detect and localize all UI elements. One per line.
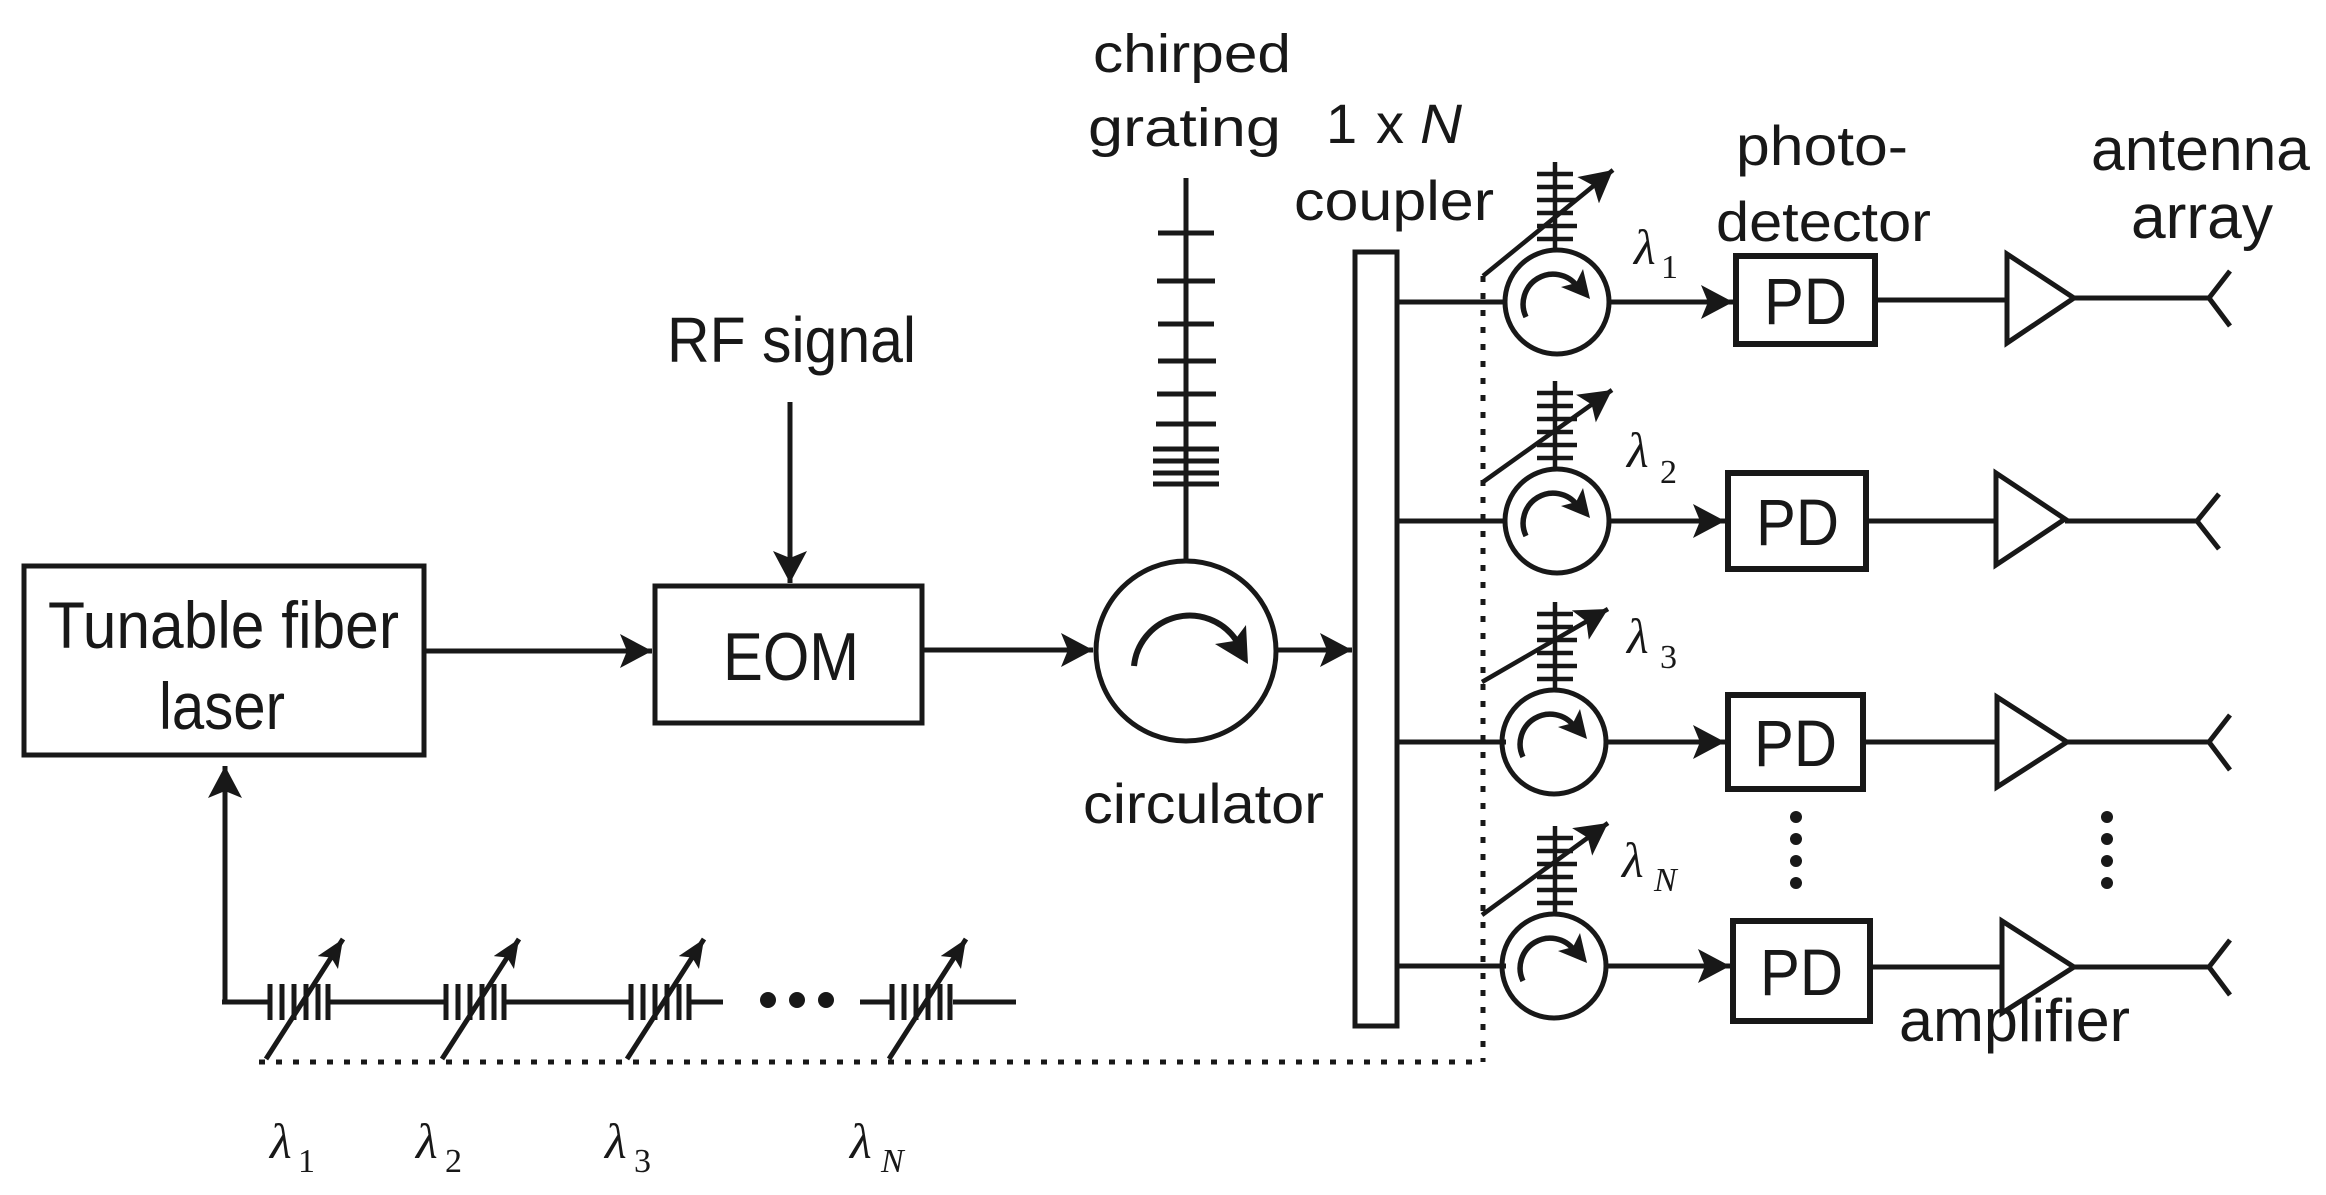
ellipsis dots: fiber chain	[760, 992, 834, 1008]
tuning arrow row2 (diagonal)	[1483, 390, 1612, 482]
tunable grating row4 (stem and ticks)	[1537, 826, 1577, 914]
wire: PD1 to amplifier1	[1875, 298, 2007, 303]
svg-text:1: 1	[1326, 92, 1357, 155]
svg-text:x: x	[1376, 92, 1404, 155]
svg-text:2: 2	[1660, 454, 1677, 491]
svg-text:3: 3	[634, 1143, 651, 1180]
photodetector PD3	[1728, 695, 1863, 789]
photodetector PD4	[1733, 921, 1870, 1021]
laser box U1: Tunable fiber laser	[24, 566, 424, 755]
antenna 1	[2209, 271, 2230, 326]
tunable grating row1 (stem and ticks)	[1537, 162, 1577, 250]
svg-text:grating: grating	[1088, 98, 1281, 158]
svg-text:circulator: circulator	[1083, 772, 1324, 835]
label: lambda 2 (bottom)	[414, 1113, 462, 1180]
photodetector PD1	[1736, 256, 1875, 344]
svg-text:detector: detector	[1716, 190, 1931, 253]
label: lambda 2 (row2)	[1625, 422, 1677, 491]
svg-text:λ: λ	[1620, 832, 1644, 888]
wire: amplifier3 to antenna3	[2067, 740, 2209, 745]
circulator row2	[1505, 469, 1609, 573]
label: chirped grating	[1088, 24, 1291, 158]
svg-text:array: array	[2131, 183, 2273, 252]
svg-text:PD: PD	[1760, 935, 1843, 1009]
antenna 3	[2209, 715, 2230, 770]
wire: fiber segment before G4	[860, 1000, 890, 1005]
wire: PD3 to amplifier3	[1863, 740, 1997, 745]
label: lambda N (bottom)	[848, 1113, 906, 1180]
svg-text:1: 1	[298, 1143, 315, 1180]
wire: coupler to circulator row3	[1397, 740, 1506, 745]
svg-text:EOM: EOM	[723, 619, 859, 695]
wire: amplifier1 to antenna1	[2074, 296, 2209, 301]
svg-text:PD: PD	[1764, 264, 1847, 338]
svg-text:λ: λ	[603, 1113, 627, 1169]
tuning arrow row4 (diagonal)	[1482, 823, 1608, 915]
svg-text:laser: laser	[159, 669, 285, 743]
circulator row1	[1505, 250, 1609, 354]
tunable grating row3 (stem and ticks)	[1537, 602, 1577, 690]
wire: circulator row2 to PD2	[1609, 519, 1725, 524]
label: 1 x N	[1326, 92, 1463, 155]
svg-text:λ: λ	[268, 1113, 292, 1169]
fiber grating G2	[446, 984, 504, 1020]
antenna 2	[2197, 494, 2219, 549]
tuning arrow row1 (diagonal)	[1483, 170, 1613, 276]
circulator row4	[1502, 914, 1606, 1018]
label: lambda 3 (bottom)	[603, 1113, 651, 1180]
tuning arrow row3 (diagonal)	[1482, 609, 1608, 682]
label: antenna array	[2091, 116, 2311, 252]
modulator EOM box	[655, 586, 922, 723]
svg-text:amplifier: amplifier	[1899, 987, 2130, 1054]
tuning arrow G2	[442, 939, 519, 1059]
wire: coupler to circulator row1	[1397, 300, 1506, 305]
wire: fiber segment G1 to G2	[330, 1000, 444, 1005]
label: lambda 1 (row1)	[1632, 219, 1678, 286]
svg-text:coupler: coupler	[1294, 169, 1494, 232]
wire: circulator up-stem to chirped grating	[1184, 178, 1189, 561]
amplifier A3	[1997, 697, 2067, 787]
svg-text:λ: λ	[848, 1113, 872, 1169]
svg-text:N: N	[1420, 92, 1463, 155]
circulator row3	[1502, 690, 1606, 794]
label: lambda N (row4)	[1620, 832, 1679, 899]
wire: fiber segment corner to grating 1	[222, 1000, 268, 1005]
ellipsis dots: amplifier column	[2101, 811, 2113, 889]
svg-text:λ: λ	[1625, 608, 1649, 664]
svg-text:RF signal: RF signal	[667, 304, 916, 376]
amplifier A2	[1996, 473, 2065, 565]
svg-text:λ: λ	[1632, 219, 1656, 275]
wire: amplifier4 to antenna4	[2074, 965, 2209, 970]
svg-text:PD: PD	[1756, 485, 1839, 559]
label: lambda 3 (row3)	[1625, 608, 1677, 676]
svg-text:λ: λ	[1625, 422, 1649, 478]
wire: fiber segment after G4	[953, 1000, 1016, 1005]
fiber grating G4	[892, 984, 950, 1020]
wire: laser output to EOM	[424, 649, 652, 654]
wire: RF signal arrow into EOM	[788, 402, 793, 583]
circulator U2 (main)	[1096, 561, 1276, 741]
svg-text:PD: PD	[1754, 706, 1837, 780]
wire: amplifier2 to antenna2	[2065, 519, 2197, 524]
tuning arrow G4	[889, 939, 966, 1059]
photodetector PD2	[1728, 473, 1866, 569]
svg-text:N: N	[1653, 862, 1679, 899]
dashed control line: vertical	[1481, 276, 1486, 1062]
label: lambda 1 (bottom)	[268, 1113, 315, 1180]
antenna 4	[2209, 940, 2230, 995]
wire: coupler to circulator row2	[1397, 519, 1506, 524]
fiber grating G1	[270, 984, 328, 1020]
wire: fiber segment after G3	[689, 1000, 723, 1005]
wire: circulator row4 to PD4	[1606, 964, 1730, 969]
fiber grating G3	[631, 984, 689, 1020]
wire: coupler to circulator row4	[1397, 964, 1506, 969]
wire: PD4 to amplifier4	[1870, 965, 2002, 970]
wire: circulator row1 to PD1	[1609, 300, 1733, 305]
ellipsis dots: PD column	[1790, 811, 1802, 889]
wire: fiber segment G2 to G3	[504, 1000, 630, 1005]
tuning arrow G1	[266, 939, 343, 1059]
wire: feedback arrow into laser	[223, 766, 228, 1002]
svg-text:1: 1	[1661, 249, 1678, 286]
coupler 1xN bar	[1355, 252, 1397, 1026]
tuning arrow G3	[627, 939, 704, 1059]
svg-text:chirped: chirped	[1093, 24, 1291, 84]
wire: EOM to circulator	[922, 648, 1093, 653]
svg-text:antenna: antenna	[2091, 116, 2311, 183]
amplifier A1	[2007, 254, 2074, 343]
wire: circulator to 1xN coupler	[1276, 648, 1352, 653]
wire: circulator row3 to PD3	[1606, 740, 1725, 745]
svg-text:N: N	[880, 1143, 906, 1180]
label: photo-detector	[1716, 114, 1931, 253]
svg-text:2: 2	[445, 1143, 462, 1180]
svg-text:photo-: photo-	[1736, 114, 1908, 177]
dashed control line: horizontal bottom	[259, 1060, 1483, 1065]
svg-text:λ: λ	[414, 1113, 438, 1169]
amplifier A4	[2002, 921, 2074, 1013]
svg-text:Tunable fiber: Tunable fiber	[48, 588, 399, 662]
tunable grating row2 (stem and ticks)	[1537, 381, 1577, 469]
wire: PD2 to amplifier2	[1866, 519, 1996, 524]
svg-text:3: 3	[1660, 639, 1677, 676]
chirped grating ticks	[1153, 233, 1219, 484]
